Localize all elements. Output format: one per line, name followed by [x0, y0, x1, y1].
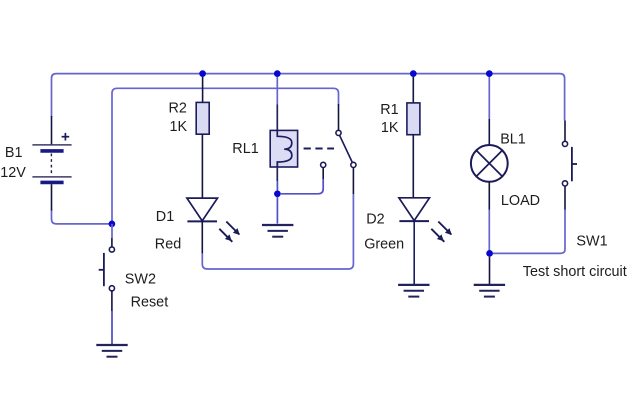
- svg-text:Test short circuit: Test short circuit: [523, 264, 627, 280]
- wire: SW1 to BL1 ground junction: [493, 210, 565, 254]
- wire: relay coil to ground junction: [276, 181, 278, 191]
- lamp BL1 top lead: [488, 77, 490, 119]
- resistor R2 top lead: [202, 77, 204, 103]
- relay coil pin upper: [276, 105, 278, 137]
- wire: relay NC contact to coil ground junction: [281, 179, 323, 194]
- junction: rail / BL1: [486, 70, 493, 77]
- switch SW1 top lead: [564, 121, 566, 142]
- relay NO contact lead: [352, 168, 354, 194]
- svg-text:12V: 12V: [0, 165, 26, 181]
- ground G3 (D2): [398, 285, 429, 297]
- wire: nested rail from node A to relay common contact: [112, 88, 339, 224]
- LED D1: [187, 198, 218, 221]
- svg-text:R1: R1: [380, 102, 398, 118]
- ground G4 (BL1): [474, 285, 505, 297]
- battery B1: [32, 145, 71, 183]
- wire: node A to SW2: [111, 224, 113, 238]
- switch SW2 bottom lead: [111, 291, 113, 311]
- junction: rail / relay coil: [274, 70, 281, 77]
- wire: BL1 to ground junction: [488, 210, 490, 251]
- junction: rail / R1: [410, 70, 417, 77]
- svg-text:LOAD: LOAD: [501, 193, 540, 209]
- svg-text:Reset: Reset: [131, 295, 169, 311]
- wire: relay NO contact to D1 cathode: [202, 194, 353, 269]
- wire: junction to ground G4: [489, 257, 491, 285]
- ground G1 (SW2): [96, 345, 127, 357]
- node A: battery- / SW2 / relay common: [109, 221, 116, 228]
- LED D1 cathode lead: [201, 222, 203, 254]
- wire: top positive rail from battery + to SW1: [52, 74, 565, 121]
- LED D2 cathode lead to ground G3: [413, 221, 415, 284]
- relay switch common lead: [338, 104, 340, 130]
- svg-text:Green: Green: [364, 237, 404, 253]
- LED D1 emission arrows: [219, 222, 240, 242]
- relay RL1 actuating dashed link: [304, 148, 334, 150]
- battery B1 top lead: [51, 116, 53, 145]
- relay coil top lead: [276, 77, 278, 105]
- svg-text:D2: D2: [366, 212, 384, 228]
- battery B1 bottom lead: [51, 184, 53, 210]
- wire: R1 to D2: [412, 135, 414, 198]
- svg-text:1K: 1K: [381, 120, 399, 136]
- wire: junction to ground G2: [276, 197, 278, 224]
- ground G2 (relay): [262, 225, 293, 237]
- switch SW2 (push-button): [99, 247, 115, 291]
- wire: battery negative to node A: [52, 210, 111, 224]
- relay NC contact lead: [322, 168, 324, 179]
- relay coil pin lower: [276, 162, 278, 181]
- switch SW1 bottom lead: [564, 186, 566, 209]
- battery + polarity mark: [62, 133, 70, 141]
- junction: rail / R2: [199, 70, 206, 77]
- switch SW1 (push-button): [562, 141, 577, 186]
- LED D2 emission arrows: [431, 222, 452, 242]
- lamp BL1: [471, 145, 508, 182]
- svg-text:Red: Red: [155, 237, 181, 253]
- resistor R1: [407, 103, 420, 135]
- relay RL1 coil: [270, 130, 297, 168]
- svg-text:RL1: RL1: [232, 141, 258, 157]
- svg-text:B1: B1: [5, 145, 23, 161]
- wire: R2 to D1: [201, 134, 203, 198]
- svg-text:1K: 1K: [170, 119, 188, 135]
- svg-text:SW1: SW1: [576, 234, 607, 250]
- relay switch RL1 contacts: [321, 130, 356, 167]
- junction: relay coil / NC contact / ground: [274, 190, 281, 197]
- svg-text:BL1: BL1: [500, 132, 526, 148]
- svg-text:SW2: SW2: [125, 272, 156, 288]
- svg-text:D1: D1: [156, 209, 174, 225]
- svg-text:R2: R2: [169, 101, 187, 117]
- resistor R1 top lead: [412, 77, 414, 103]
- lamp BL1 bottom pin: [488, 182, 490, 210]
- lamp BL1 top pin: [488, 119, 490, 145]
- LED D2: [399, 198, 430, 221]
- junction: BL1 / SW1 / ground: [486, 250, 493, 257]
- resistor R2: [196, 102, 209, 134]
- wire: SW2 to ground G1: [111, 311, 113, 344]
- switch SW2 top lead: [111, 238, 113, 247]
